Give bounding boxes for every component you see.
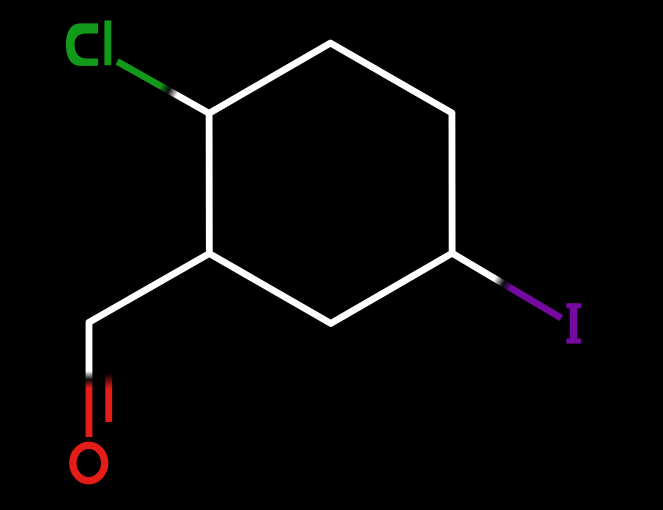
bond C2-Cl (green half at Cl, dark seam, white half at ring) xyxy=(117,62,209,114)
C=O double bond inner line (red half only, fades out upward) xyxy=(105,374,112,422)
bond C1-CHO and C=O main line (white, dark seam, red half at O) xyxy=(89,254,209,437)
atom label Cl : letter C xyxy=(66,23,98,66)
atom label I : bottom serif xyxy=(566,339,581,344)
atom label Cl : letter l xyxy=(104,21,111,66)
benzene ring outer hexagon C1-C2-C3-C4-C5-C6 xyxy=(209,43,452,323)
atom label I : top serif xyxy=(566,303,581,308)
atom label O xyxy=(73,445,105,480)
bond C5-I (purple half at I, dark seam, white half at ring) xyxy=(452,253,561,318)
atom label I : stem xyxy=(570,307,578,338)
